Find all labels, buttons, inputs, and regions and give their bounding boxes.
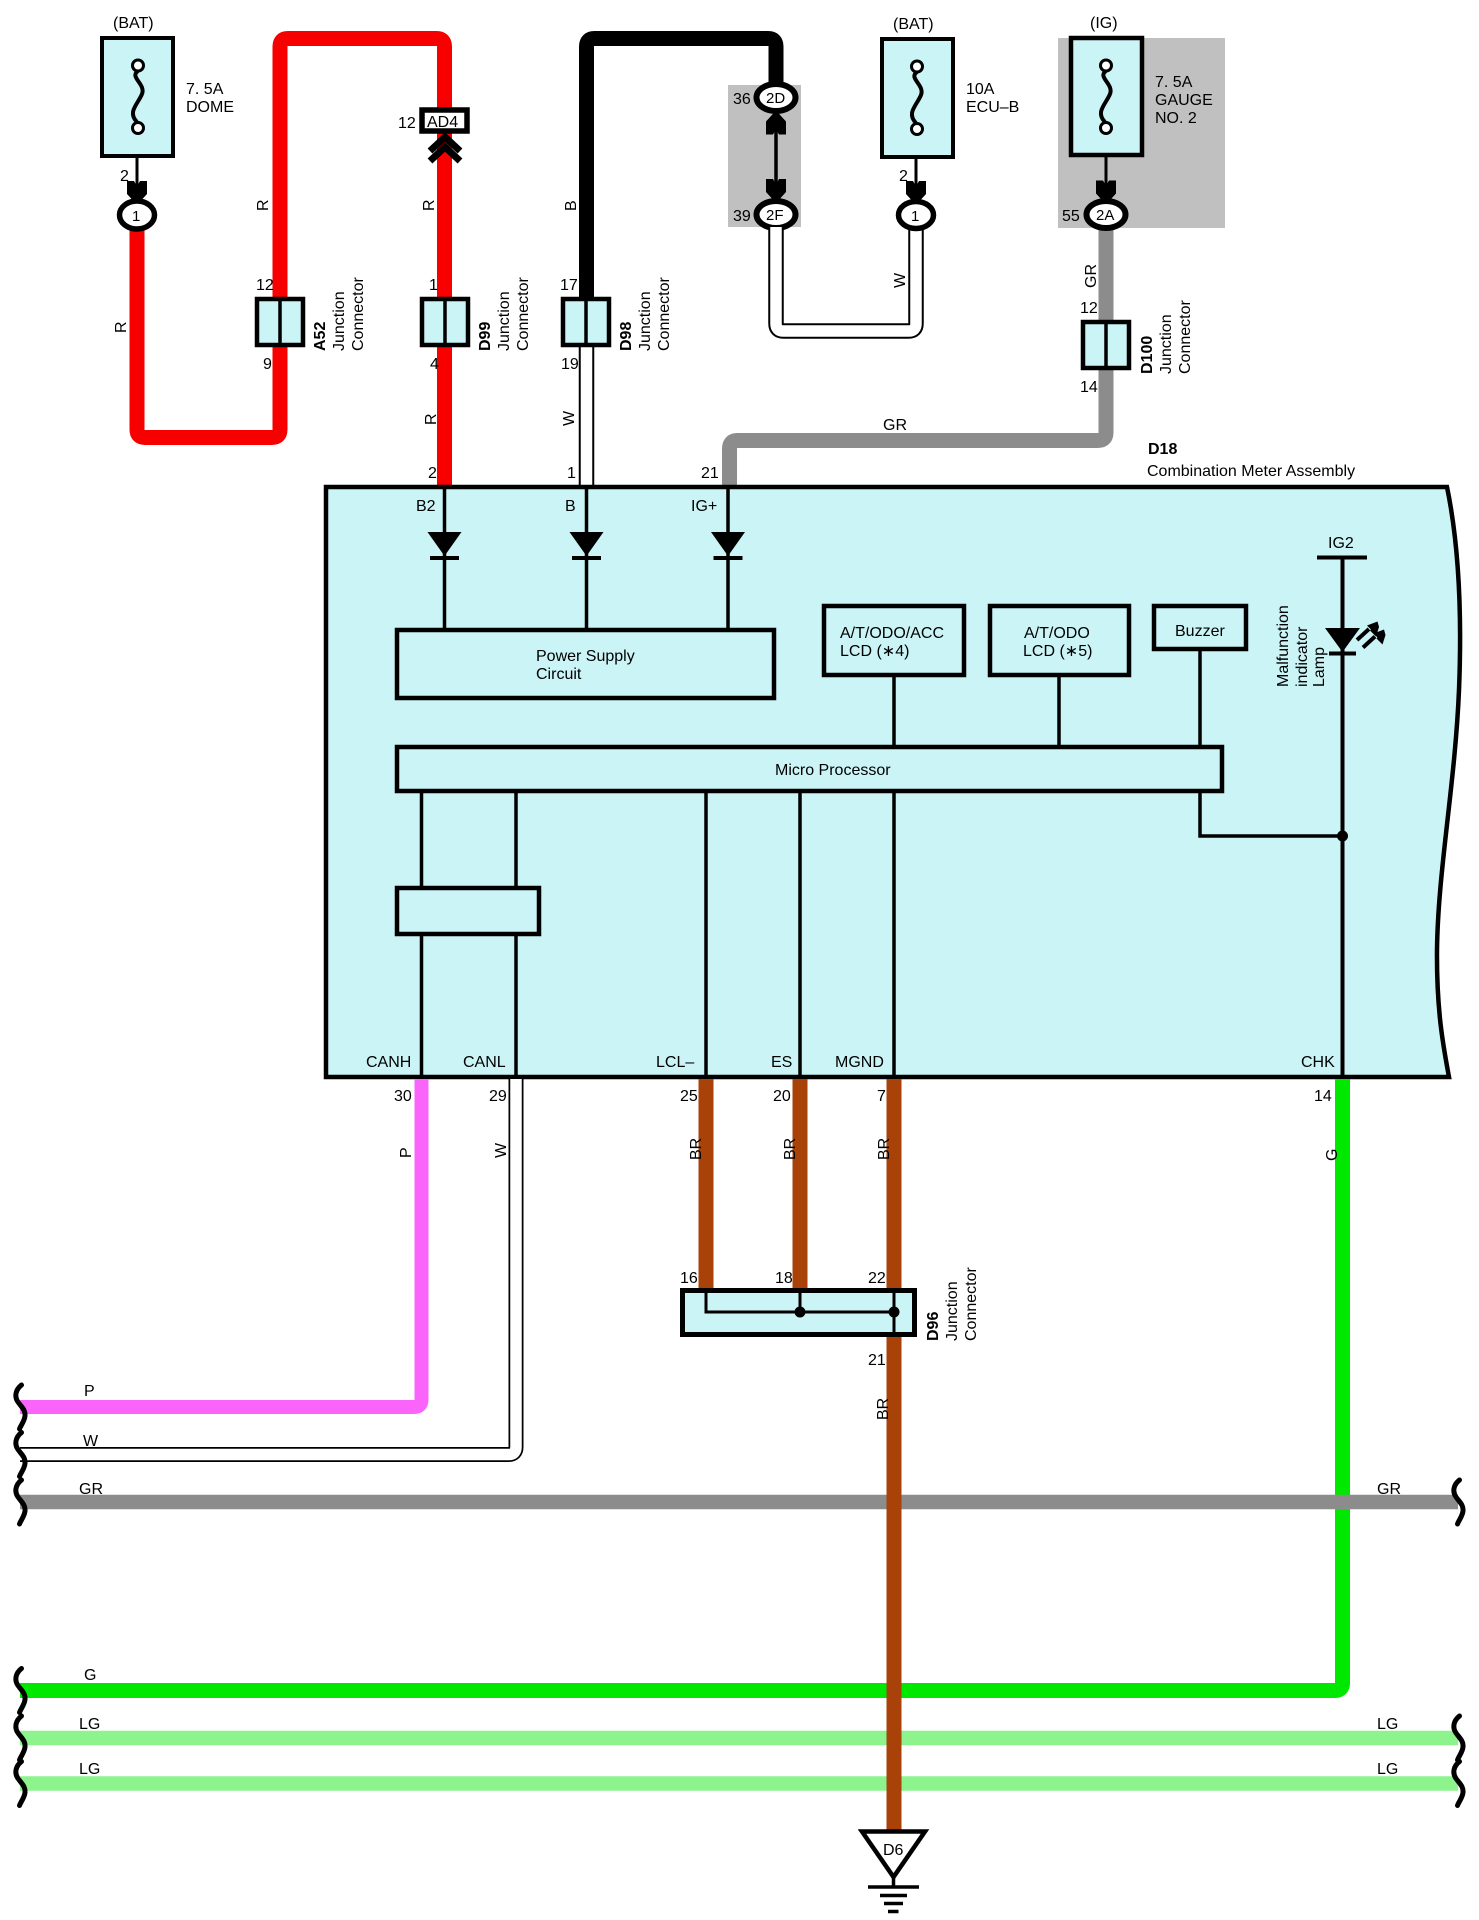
- B pin line and diode: [570, 489, 604, 628]
- wire W : white wire from D98 pin 19 to D18 pin 1: [579, 345, 595, 486]
- break squiggle LG1 right: [1454, 1716, 1463, 1760]
- wire BR : LCL- pin 25 to D96 pin 16: [699, 1079, 714, 1290]
- svg-text:LCD (∗5): LCD (∗5): [1023, 643, 1092, 660]
- svg-text:7. 5A: 7. 5A: [1155, 74, 1193, 91]
- label R on wire segment below DOME oval: [113, 321, 130, 333]
- pin 2 label above D18 (B2): [428, 465, 437, 482]
- svg-text:36: 36: [733, 91, 751, 108]
- pin name CANL: [463, 1054, 506, 1071]
- node 1 : ECU-B connector oval: [899, 202, 934, 229]
- junction connector D99: [422, 277, 532, 373]
- CANH line inside D18: [420, 793, 424, 1077]
- break squiggle GR right: [1454, 1480, 1463, 1524]
- label GR rotated above D100: [1083, 264, 1100, 288]
- svg-text:Junction: Junction: [496, 291, 513, 351]
- line LCD1 to Micro Processor: [892, 677, 896, 745]
- svg-text:(BAT): (BAT): [893, 16, 934, 33]
- junction connector D98: [560, 277, 673, 373]
- Micro Processor box: [397, 747, 1222, 791]
- svg-text:BR: BR: [875, 1398, 892, 1420]
- pin 1 label above D18 (B): [567, 465, 576, 482]
- svg-text:(IG): (IG): [1090, 15, 1118, 32]
- svg-text:R: R: [421, 199, 438, 211]
- svg-text:Buzzer: Buzzer: [1175, 623, 1225, 640]
- label R on wire segment above D99: [421, 199, 438, 211]
- pin name MGND: [835, 1054, 884, 1071]
- D18 Combination Meter Assembly box: [326, 441, 1460, 1077]
- label BR on ES wire: [782, 1138, 799, 1160]
- svg-text:1: 1: [911, 208, 919, 225]
- svg-text:10A: 10A: [966, 81, 995, 98]
- label LG upper right: [1377, 1716, 1398, 1733]
- Power Supply Circuit box: [397, 630, 774, 698]
- label W rotated on white wire: [493, 1142, 510, 1158]
- pin name LCL-: [656, 1054, 694, 1071]
- svg-text:indicator: indicator: [1294, 626, 1311, 687]
- svg-text:DOME: DOME: [186, 99, 234, 116]
- ES line inside D18: [798, 793, 802, 1077]
- break squiggle LG1 left: [16, 1716, 25, 1760]
- break squiggle W left: [16, 1433, 25, 1477]
- svg-text:GR: GR: [883, 417, 907, 434]
- pin name IG+: [691, 498, 717, 515]
- IG+ pin line and diode: [711, 489, 745, 628]
- label G rotated on green wire: [1324, 1149, 1341, 1161]
- connector AD4: [398, 110, 467, 132]
- wire GR : horizontal gray wire across page: [20, 1495, 1458, 1510]
- svg-text:Connector: Connector: [350, 277, 367, 351]
- wire LG upper : light green horizontal: [20, 1731, 1458, 1746]
- svg-text:BR: BR: [688, 1138, 705, 1160]
- pin 21 label above D18 (IG+): [701, 465, 719, 482]
- label BR on LCL- wire: [688, 1138, 705, 1160]
- svg-text:20: 20: [773, 1088, 791, 1105]
- pin 30 label: [394, 1088, 412, 1105]
- wire from ECU-B fuse pin 2: [899, 157, 916, 200]
- arrow into ECU-B oval: [906, 181, 926, 205]
- wire BR : MGND pin 7 to D96 pin 22: [887, 1079, 902, 1290]
- junction connector A52: [256, 277, 367, 373]
- svg-text:BR: BR: [782, 1138, 799, 1160]
- svg-text:16: 16: [680, 1270, 698, 1287]
- wire R : DOME fuse pin 1 to D18 pin 2 (B2), thick red: [137, 39, 445, 488]
- svg-text:LG: LG: [79, 1716, 100, 1733]
- pin name CANH: [366, 1054, 411, 1071]
- svg-text:D99: D99: [477, 322, 494, 351]
- svg-text:Connector: Connector: [656, 277, 673, 351]
- wire from GAUGE fuse: [1105, 155, 1108, 200]
- malfunction indicator lamp LED: [1325, 622, 1386, 654]
- svg-text:W: W: [561, 410, 578, 426]
- svg-text:MGND: MGND: [835, 1054, 884, 1071]
- arrow into DOME connector oval: [127, 181, 147, 205]
- break squiggle GR left: [16, 1480, 25, 1524]
- svg-text:21: 21: [701, 465, 719, 482]
- pin 21 label at D96: [868, 1352, 886, 1369]
- svg-text:GAUGE: GAUGE: [1155, 92, 1213, 109]
- svg-text:1: 1: [429, 277, 438, 294]
- svg-text:GR: GR: [1083, 264, 1100, 288]
- svg-text:B: B: [563, 200, 580, 211]
- svg-text:LG: LG: [1377, 1716, 1398, 1733]
- svg-text:19: 19: [561, 356, 579, 373]
- svg-text:BR: BR: [876, 1138, 893, 1160]
- wire W : white from D18 pin 29 to left edge: [20, 1079, 516, 1455]
- svg-text:30: 30: [394, 1088, 412, 1105]
- svg-text:LCL–: LCL–: [656, 1054, 694, 1071]
- wire GR : from 2A through D100 to D18 pin 21: [730, 226, 1107, 487]
- chevrons below AD4: [430, 137, 460, 161]
- svg-text:G: G: [84, 1667, 96, 1684]
- svg-text:1: 1: [132, 208, 140, 225]
- svg-text:Combination Meter Assembly: Combination Meter Assembly: [1147, 463, 1355, 480]
- svg-text:2A: 2A: [1096, 207, 1114, 224]
- svg-text:2F: 2F: [766, 207, 784, 224]
- IG2 node label and bar: [1317, 535, 1367, 558]
- label B on wire left of 2D: [563, 200, 580, 211]
- svg-text:ECU–B: ECU–B: [966, 99, 1019, 116]
- svg-text:D18: D18: [1148, 441, 1177, 458]
- svg-text:R: R: [113, 321, 130, 333]
- svg-text:LG: LG: [79, 1761, 100, 1778]
- pin 22 label at D96: [868, 1270, 886, 1287]
- wire G : green from D18 pin 14 (CHK) to left edge: [20, 1079, 1343, 1691]
- label GR horizontal left: [79, 1481, 103, 1498]
- CANL line inside D18: [514, 793, 518, 1077]
- svg-text:P: P: [398, 1147, 415, 1158]
- svg-text:12: 12: [256, 277, 274, 294]
- svg-text:CANH: CANH: [366, 1054, 411, 1071]
- svg-text:LCD (∗4): LCD (∗4): [840, 643, 909, 660]
- svg-text:IG+: IG+: [691, 498, 717, 515]
- svg-text:17: 17: [560, 277, 578, 294]
- pin 7 label: [877, 1088, 886, 1105]
- svg-text:W: W: [493, 1142, 510, 1158]
- svg-text:B2: B2: [416, 498, 436, 515]
- svg-text:W: W: [83, 1433, 99, 1450]
- svg-text:P: P: [84, 1383, 95, 1400]
- label W on U wire right leg: [892, 272, 909, 288]
- svg-text:7. 5A: 7. 5A: [186, 81, 224, 98]
- svg-text:Circuit: Circuit: [536, 666, 582, 683]
- label BR on MGND wire: [876, 1138, 893, 1160]
- svg-text:(BAT): (BAT): [113, 15, 154, 32]
- svg-text:Junction: Junction: [1158, 314, 1175, 374]
- pin name ES: [771, 1054, 792, 1071]
- CHK line from IG2 to pin 14: [1341, 557, 1345, 1077]
- svg-text:22: 22: [868, 1270, 886, 1287]
- label BR below D96: [875, 1398, 892, 1420]
- svg-text:Power Supply: Power Supply: [536, 648, 635, 665]
- svg-text:R: R: [423, 413, 440, 425]
- label GR horizontal right: [1377, 1481, 1401, 1498]
- break squiggle P left: [16, 1385, 25, 1429]
- gray panel behind GAUGE NO.2 fuse: [1058, 38, 1225, 228]
- pin name B: [565, 498, 576, 515]
- svg-text:A52: A52: [312, 322, 329, 351]
- pin 25 label: [680, 1088, 698, 1105]
- svg-text:G: G: [1324, 1149, 1341, 1161]
- svg-text:14: 14: [1080, 379, 1098, 396]
- wire P : pink from D18 pin 30 to left edge: [20, 1079, 422, 1407]
- svg-text:CANL: CANL: [463, 1054, 506, 1071]
- LCL- line inside D18: [704, 793, 708, 1077]
- fuse 7.5A DOME: [102, 15, 234, 156]
- node 2D oval: [733, 84, 796, 111]
- pin 16 label at D96: [680, 1270, 698, 1287]
- line LCD2 to Micro Processor: [1057, 677, 1061, 745]
- B2 pin line and diode: [428, 489, 462, 628]
- wire B : thick black from node 2D to junction D98: [587, 39, 777, 301]
- label R on wire segment left of A52: [255, 199, 272, 211]
- svg-text:A/T/ODO: A/T/ODO: [1024, 625, 1090, 642]
- arrow link between 2D and 2F: [766, 111, 786, 204]
- wire BR : D96 pin 21 down to ground D6: [887, 1335, 902, 1831]
- wire BR : ES pin 20 to D96 pin 18: [793, 1079, 808, 1290]
- gray panel behind 2D/2F connector: [728, 85, 801, 227]
- label R on wire segment below D99: [423, 413, 440, 425]
- break squiggle G left: [16, 1669, 25, 1713]
- junction connector D96: [683, 1267, 981, 1341]
- svg-text:D98: D98: [618, 322, 635, 351]
- svg-text:Lamp: Lamp: [1311, 647, 1328, 687]
- fuse 10A ECU-B: [882, 16, 1019, 157]
- svg-text:Junction: Junction: [331, 291, 348, 351]
- label W horizontal left: [83, 1433, 99, 1450]
- wire W : white U-shaped wire from 2F to ECU-B node 1: [776, 227, 916, 331]
- line from Micro Processor to CHK node junction: [1200, 793, 1348, 842]
- node 1 : DOME circuit connector oval: [120, 201, 155, 229]
- fuse 7.5A GAUGE NO.2: [1071, 15, 1213, 155]
- svg-text:Connector: Connector: [1177, 300, 1194, 374]
- pin 20 label: [773, 1088, 791, 1105]
- svg-text:7: 7: [877, 1088, 886, 1105]
- wire from DOME fuse pin 2: [120, 156, 137, 200]
- svg-text:18: 18: [775, 1270, 793, 1287]
- malfunction indicator lamp label: [1275, 605, 1328, 687]
- pin name B2: [416, 498, 436, 515]
- svg-text:D96: D96: [925, 1312, 942, 1341]
- svg-text:B: B: [565, 498, 576, 515]
- svg-text:Malfunction: Malfunction: [1275, 605, 1292, 687]
- break squiggle LG2 right: [1454, 1762, 1463, 1806]
- svg-text:ES: ES: [771, 1054, 792, 1071]
- svg-text:NO. 2: NO. 2: [1155, 110, 1197, 127]
- MGND line inside D18: [892, 793, 896, 1077]
- svg-text:1: 1: [567, 465, 576, 482]
- label LG lower left: [79, 1761, 100, 1778]
- svg-text:21: 21: [868, 1352, 886, 1369]
- node 2A oval: [1062, 201, 1126, 228]
- svg-text:D100: D100: [1139, 336, 1156, 374]
- label W on wire below D98: [561, 410, 578, 426]
- svg-text:55: 55: [1062, 208, 1080, 225]
- svg-text:4: 4: [430, 356, 439, 373]
- node 2F oval: [733, 201, 796, 228]
- svg-text:D6: D6: [883, 1842, 904, 1859]
- ground D6: [862, 1832, 925, 1912]
- svg-text:Junction: Junction: [637, 291, 654, 351]
- svg-text:25: 25: [680, 1088, 698, 1105]
- svg-text:GR: GR: [79, 1481, 103, 1498]
- svg-text:GR: GR: [1377, 1481, 1401, 1498]
- A/T/ODO LCD (*5) box: [990, 606, 1129, 675]
- label LG upper left: [79, 1716, 100, 1733]
- label LG lower right: [1377, 1761, 1398, 1778]
- CAN driver box: [397, 888, 539, 934]
- svg-text:29: 29: [489, 1088, 507, 1105]
- break squiggle LG2 left: [16, 1762, 25, 1806]
- svg-text:9: 9: [263, 356, 272, 373]
- wire LG lower : light green horizontal: [20, 1776, 1458, 1791]
- svg-text:A/T/ODO/ACC: A/T/ODO/ACC: [840, 625, 944, 642]
- label P rotated on pink wire: [398, 1147, 415, 1158]
- label G horizontal left: [84, 1667, 96, 1684]
- svg-text:12: 12: [1080, 300, 1098, 317]
- svg-text:2: 2: [428, 465, 437, 482]
- pin 18 label at D96: [775, 1270, 793, 1287]
- Buzzer box: [1154, 606, 1246, 649]
- label P horizontal left: [84, 1383, 95, 1400]
- svg-text:W: W: [892, 272, 909, 288]
- svg-text:Micro Processor: Micro Processor: [775, 762, 891, 779]
- pin 14 label: [1314, 1088, 1332, 1105]
- svg-text:LG: LG: [1377, 1761, 1398, 1778]
- svg-text:Connector: Connector: [963, 1267, 980, 1341]
- svg-text:39: 39: [733, 208, 751, 225]
- svg-text:Junction: Junction: [944, 1281, 961, 1341]
- svg-text:Connector: Connector: [515, 277, 532, 351]
- svg-text:IG2: IG2: [1328, 535, 1354, 552]
- junction connector D100: [1080, 300, 1194, 396]
- label GR on horizontal segment: [883, 417, 907, 434]
- svg-text:CHK: CHK: [1301, 1054, 1335, 1071]
- svg-text:AD4: AD4: [427, 114, 458, 131]
- pin 29 label: [489, 1088, 507, 1105]
- svg-text:2D: 2D: [766, 90, 785, 107]
- line Buzzer to Micro Processor: [1198, 651, 1202, 745]
- arrow into 2A oval: [1096, 181, 1116, 205]
- pin name CHK: [1301, 1054, 1335, 1071]
- svg-text:R: R: [255, 199, 272, 211]
- svg-text:14: 14: [1314, 1088, 1332, 1105]
- svg-text:12: 12: [398, 115, 416, 132]
- A/T/ODO/ACC LCD (*4) box: [824, 606, 964, 675]
